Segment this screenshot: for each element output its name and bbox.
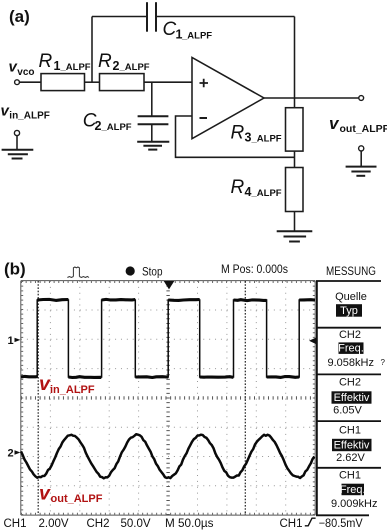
- wire inverting input: [176, 116, 295, 157]
- svg-text:−80.5mV: −80.5mV: [319, 518, 363, 530]
- screen bottom edge ruler: [21, 514, 315, 516]
- svg-text:Typ: Typ: [340, 305, 358, 317]
- wire input to R1: [20, 81, 41, 83]
- center horizontal axis ticks: [21, 396, 315, 399]
- ground vout reference: [346, 166, 377, 168]
- svg-text:CH1: CH1: [280, 518, 303, 530]
- wire R4 to ground: [294, 212, 296, 232]
- ground vin reference: [2, 149, 34, 151]
- svg-text:50.0V: 50.0V: [121, 518, 151, 530]
- svg-text:out_ALPF: out_ALPF: [340, 123, 387, 135]
- capacitor C2: [138, 115, 169, 117]
- wire node A up to C1: [91, 17, 93, 83]
- wire R3 to R4 junction: [294, 151, 296, 167]
- svg-text:R: R: [98, 51, 112, 72]
- wire C2 to ground: [151, 124, 153, 141]
- svg-text:M 50.0µs: M 50.0µs: [165, 518, 214, 530]
- svg-text:R: R: [231, 123, 245, 144]
- resistor R2: [100, 74, 145, 91]
- trigger slope icon: [305, 518, 316, 526]
- svg-text:Effektiv: Effektiv: [334, 392, 370, 404]
- svg-text:Quelle: Quelle: [335, 291, 367, 303]
- svg-text:CH1: CH1: [339, 425, 361, 437]
- svg-text:3: 3: [245, 131, 252, 145]
- screen left edge ruler: [20, 281, 22, 515]
- capacitor C1: [146, 2, 148, 32]
- svg-text:CH2: CH2: [339, 329, 361, 341]
- resistor R1: [41, 74, 85, 91]
- op-amp - symbol: [200, 117, 208, 119]
- op-amp + symbol: [200, 79, 209, 87]
- svg-text:?: ?: [381, 358, 386, 367]
- svg-text:R: R: [39, 51, 53, 72]
- wire node B down to C2: [151, 82, 153, 116]
- svg-text:_ALPF: _ALPF: [119, 62, 150, 73]
- screen top edge ruler: [21, 280, 315, 282]
- svg-text:2: 2: [95, 119, 102, 133]
- svg-text:Stop: Stop: [142, 267, 163, 279]
- svg-text:2: 2: [8, 448, 14, 460]
- wire C1 right plate to feedback node: [157, 16, 295, 18]
- terminal vin reference: [14, 130, 19, 135]
- svg-text:v: v: [329, 114, 340, 133]
- svg-text:_ALPF: _ALPF: [101, 122, 132, 133]
- svg-text:2.00V: 2.00V: [39, 518, 69, 530]
- trigger level arrow right: [309, 338, 316, 345]
- svg-text:CH1: CH1: [339, 470, 361, 482]
- terminal vout reference: [359, 146, 364, 151]
- svg-text:v: v: [39, 483, 51, 505]
- svg-text:in_ALPF: in_ALPF: [50, 384, 95, 396]
- cursor dashed line left: [37, 281, 39, 515]
- graticule division dotted columns: [50, 281, 285, 515]
- svg-text:9.058kHz: 9.058kHz: [328, 357, 374, 369]
- svg-text:9.009kHz: 9.009kHz: [331, 498, 377, 510]
- ground below C2: [137, 141, 169, 143]
- svg-text:out_ALPF: out_ALPF: [51, 493, 103, 505]
- wire R1 to R2 / node A: [85, 81, 100, 83]
- trigger position arrow top: [164, 281, 175, 289]
- screen right edge ruler: [314, 281, 316, 515]
- ground below R4: [277, 230, 313, 232]
- svg-text:1: 1: [8, 335, 14, 347]
- cursor dashed line right: [244, 281, 246, 515]
- svg-text:R: R: [231, 177, 245, 198]
- svg-text:_ALPF: _ALPF: [60, 62, 91, 73]
- wire top to C1 left plate: [92, 16, 146, 18]
- svg-text:in_ALPF: in_ALPF: [9, 111, 50, 122]
- svg-text:CH2: CH2: [339, 377, 361, 389]
- CH1 square wave thick segments: [21, 299, 315, 377]
- CH1 square wave trace: [21, 300, 315, 377]
- svg-text:2.62V: 2.62V: [336, 452, 365, 464]
- graticule division dotted rows: [21, 310, 315, 486]
- stop indicator: [126, 266, 135, 275]
- acquisition icon: [67, 267, 89, 278]
- svg-text:Freq.: Freq.: [338, 343, 364, 355]
- svg-text:_ALPF: _ALPF: [251, 134, 282, 145]
- svg-text:1: 1: [54, 59, 61, 73]
- resistor R4: [286, 168, 304, 212]
- node vout terminal: [359, 96, 364, 101]
- wire output node down to R3: [294, 98, 296, 108]
- menu panel frame: [316, 281, 381, 515]
- wire feedback down to output node: [294, 17, 296, 98]
- svg-text:Effektiv: Effektiv: [334, 440, 370, 452]
- svg-text:CH2: CH2: [87, 518, 110, 530]
- svg-text:(b): (b): [4, 260, 26, 279]
- wire op-amp output: [264, 97, 359, 99]
- svg-text:vco: vco: [17, 67, 34, 78]
- resistor R3: [286, 108, 304, 151]
- svg-text:4: 4: [245, 185, 252, 199]
- svg-text:2: 2: [113, 59, 120, 73]
- svg-text:_ALPF: _ALPF: [251, 188, 282, 199]
- svg-text:M Pos: 0.000s: M Pos: 0.000s: [221, 264, 288, 276]
- CH2 sine wave trace: [21, 434, 314, 478]
- svg-text:Freq.: Freq.: [340, 484, 366, 496]
- node vvco input terminal: [15, 80, 20, 85]
- svg-text:MESSUNG: MESSUNG: [326, 266, 376, 278]
- svg-text:CH1: CH1: [4, 518, 27, 530]
- center vertical axis ticks: [166, 281, 169, 515]
- op-amp U1: [192, 58, 264, 139]
- svg-text:6.05V: 6.05V: [333, 405, 362, 417]
- wire R2 to op-amp + input: [144, 81, 192, 83]
- svg-text:C: C: [163, 19, 177, 40]
- svg-text:(a): (a): [9, 7, 30, 26]
- svg-text:_ALPF: _ALPF: [181, 31, 212, 42]
